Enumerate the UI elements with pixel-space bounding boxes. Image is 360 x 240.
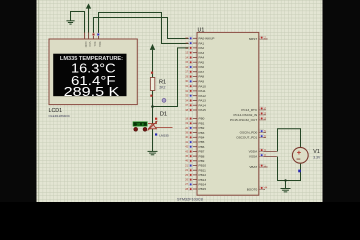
svg-text:PB1: PB1 [199,121,205,125]
svg-text:28: 28 [185,187,188,191]
svg-text:PB12: PB12 [199,173,207,177]
svg-text:PB3: PB3 [199,131,205,135]
svg-text:37: 37 [185,103,188,107]
svg-text:OLED12864DC: OLED12864DC [49,114,71,118]
svg-text:VDDA: VDDA [249,150,259,154]
svg-text:39: 39 [185,131,188,135]
svg-text:PB9: PB9 [199,159,205,163]
svg-text:OSCOUT_PD1: OSCOUT_PD1 [236,136,257,140]
svg-text:19: 19 [185,121,188,125]
svg-text:40: 40 [185,135,188,139]
svg-text:PB8: PB8 [199,154,205,158]
svg-text:PA7: PA7 [199,70,205,74]
svg-text:30: 30 [185,79,188,83]
svg-text:VBAT: VBAT [249,165,257,169]
svg-text:VSSA: VSSA [249,155,258,159]
svg-text:45: 45 [185,154,188,158]
svg-text:38: 38 [185,108,188,112]
svg-text:32: 32 [185,89,188,93]
svg-text:PA9: PA9 [199,80,205,84]
svg-text:16: 16 [185,65,188,69]
svg-text:46: 46 [185,159,188,163]
svg-text:PA5: PA5 [199,60,205,64]
svg-text:PA12: PA12 [199,94,207,98]
svg-text:PB0: PB0 [199,117,205,121]
svg-text:22: 22 [185,168,188,172]
svg-text:R1: R1 [159,80,166,86]
svg-text:PB14: PB14 [199,183,207,187]
svg-text:PA6: PA6 [199,65,205,69]
svg-text:SCL: SCL [93,42,97,48]
svg-text:27: 27 [185,182,188,186]
svg-text:−: − [296,155,301,164]
svg-text:STM32F103C8: STM32F103C8 [177,197,203,201]
svg-text:44: 44 [264,186,267,190]
svg-text:3.3V: 3.3V [313,156,321,160]
svg-text:31: 31 [185,84,188,88]
svg-text:PB4: PB4 [199,136,205,140]
svg-text:42: 42 [185,145,188,149]
svg-text:289.5 K: 289.5 K [64,84,120,99]
svg-text:12: 12 [185,46,188,50]
svg-text:OSCIN_PD0: OSCIN_PD0 [240,131,258,135]
svg-text:PC14-OSC32_IN: PC14-OSC32_IN [233,113,257,117]
svg-text:VCC: VCC [88,42,92,48]
svg-text:NRST: NRST [249,37,258,41]
svg-text:PA15: PA15 [199,108,207,112]
svg-text:PA10: PA10 [199,84,207,88]
svg-text:15: 15 [185,60,188,64]
svg-text:PB5: PB5 [199,140,205,144]
svg-text:21: 21 [185,163,188,167]
svg-text:29: 29 [185,74,188,78]
svg-text:17: 17 [185,70,188,74]
svg-text:PB15: PB15 [199,187,207,191]
svg-text:34: 34 [185,98,188,102]
svg-text:33: 33 [185,94,188,98]
svg-text:PB13: PB13 [199,178,207,182]
svg-text:PA1: PA1 [199,41,205,45]
svg-text:BOOT0: BOOT0 [247,188,258,192]
svg-text:PA3: PA3 [199,51,205,55]
svg-text:PA0-WKUP: PA0-WKUP [199,37,215,41]
svg-text:PB2: PB2 [199,126,205,130]
svg-text:18: 18 [185,116,188,120]
svg-text:U1: U1 [198,27,205,33]
svg-text:25: 25 [185,173,188,177]
svg-text:14: 14 [185,55,188,59]
svg-text:PA4: PA4 [199,56,205,60]
svg-text:10: 10 [185,36,188,40]
svg-text:PA2: PA2 [199,46,205,50]
svg-text:PB7: PB7 [199,150,205,154]
svg-text:V1: V1 [313,149,320,155]
svg-text:PB11: PB11 [199,168,207,172]
svg-text:13: 13 [185,51,188,55]
svg-text:26: 26 [185,178,188,182]
svg-text:41: 41 [185,140,188,144]
svg-text:GND: GND [84,42,88,48]
svg-text:PA14: PA14 [199,103,207,107]
svg-text:PC13_RTC: PC13_RTC [241,108,258,112]
svg-text:20: 20 [185,126,188,130]
svg-text:2K2: 2K2 [159,86,165,90]
svg-text:PB6: PB6 [199,145,205,149]
svg-text:SDA: SDA [98,42,102,48]
svg-text:16.0: 16.0 [136,122,144,126]
svg-text:LM335: LM335 [159,134,169,138]
svg-text:PB10: PB10 [199,164,207,168]
svg-text:PA8: PA8 [199,75,205,79]
svg-text:D1: D1 [160,112,167,118]
svg-text:PC15-OSC32_OUT: PC15-OSC32_OUT [230,118,257,122]
svg-text:PA13: PA13 [199,99,207,103]
svg-text:43: 43 [185,149,188,153]
svg-text:PA11: PA11 [199,89,206,93]
